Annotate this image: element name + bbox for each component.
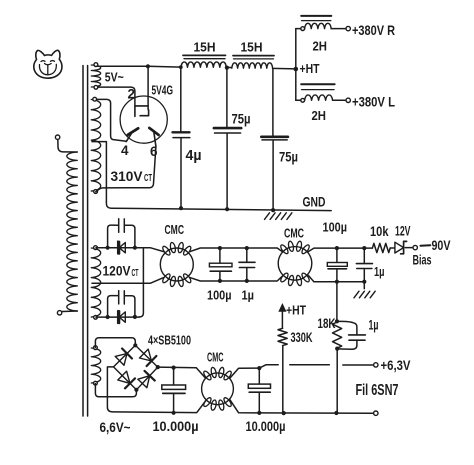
svg-text:2H: 2H	[312, 108, 327, 123]
svg-text:18K: 18K	[318, 316, 336, 331]
svg-text:6: 6	[150, 144, 158, 159]
svg-text:15H: 15H	[194, 41, 216, 55]
zener D7 12V	[395, 241, 407, 253]
svg-text:310V: 310V	[111, 168, 144, 184]
label 75µ #2	[279, 150, 298, 165]
node R2 rail	[334, 411, 338, 415]
svg-text:2H: 2H	[313, 39, 328, 54]
node C1 gnd	[179, 206, 183, 210]
tube filament	[135, 106, 149, 117]
svg-text:10k: 10k	[370, 224, 389, 239]
diode D3 bridge	[115, 349, 132, 366]
wire C6 to R2	[336, 282, 338, 322]
svg-text:+HT: +HT	[300, 61, 320, 76]
label 75µ #1	[232, 112, 251, 127]
wire 120V CT to CMC1	[92, 278, 164, 284]
wire bridge minus	[107, 367, 206, 413]
svg-text:10.000µ: 10.000µ	[246, 419, 286, 434]
svg-text:15H: 15H	[241, 41, 263, 55]
svg-text:CMC: CMC	[207, 351, 224, 365]
wire bias join vertical	[139, 248, 143, 317]
capacitor snubber top	[108, 219, 135, 248]
choke L1 core	[183, 55, 226, 58]
node C3 gnd	[271, 208, 275, 212]
label 5V~	[105, 70, 124, 85]
tube envelope 5V4G	[120, 96, 167, 143]
node C5 bottom	[245, 279, 249, 283]
label CMC #3	[207, 351, 224, 365]
node C10 top	[257, 366, 261, 370]
capacitor C9 10.000µ	[162, 368, 186, 413]
wire bias bottom rail A	[190, 276, 282, 281]
svg-text:Fil 6SN7: Fil 6SN7	[356, 382, 399, 399]
ground symbol bias	[354, 291, 375, 298]
terminal fil-	[374, 411, 378, 415]
capacitor C4 100µ	[209, 248, 232, 281]
svg-text:+380V L: +380V L	[352, 94, 395, 110]
label 5V4G	[152, 83, 174, 98]
diode D5 bridge	[118, 371, 135, 388]
node D2 right	[133, 315, 137, 319]
label Bias	[413, 253, 432, 268]
node C7 top	[362, 246, 366, 250]
terminal +380V L	[346, 98, 350, 102]
node C4 bottom	[218, 279, 222, 283]
wire zener to terminal	[405, 247, 412, 249]
node bridge bottom	[134, 388, 138, 392]
diode D4 bridge	[140, 349, 157, 366]
resistor R1 10k	[372, 243, 390, 252]
node C9 top	[172, 366, 176, 370]
label CMC #1	[165, 223, 185, 237]
label 310Vct	[111, 168, 153, 184]
wire bias bottom rail B	[308, 275, 364, 281]
wire 310V top to plate4	[97, 99, 127, 141]
svg-text:+HT: +HT	[286, 303, 306, 318]
capacitor C3 75µ	[261, 69, 288, 211]
node C4 top	[218, 246, 222, 250]
svg-text:12V: 12V	[395, 224, 411, 239]
diode D2 bias	[118, 311, 125, 323]
choke L3 2H core+coil	[296, 16, 346, 31]
node C5 top	[245, 246, 249, 250]
label 100µ #1	[207, 288, 232, 303]
resistor R2 18K	[333, 322, 342, 348]
wire 120V bottom wire	[96, 316, 139, 318]
node R2 top	[335, 319, 339, 323]
wire rail tube to choke1	[148, 65, 181, 68]
capacitor C7 1µ	[356, 248, 372, 282]
label 15H #2	[241, 41, 263, 55]
wire 120V top to CMC1	[96, 248, 164, 252]
wire center-tap to GND rail	[106, 142, 331, 211]
node C9 bottom	[172, 411, 176, 415]
node +HT	[294, 67, 299, 72]
label 12V	[395, 224, 411, 239]
capacitor C1 4µ	[173, 67, 190, 208]
wire 6.6V top to bridge	[95, 338, 135, 348]
choke L2 15H	[232, 63, 273, 68]
label +HT #2	[286, 303, 306, 318]
label +380V L	[352, 94, 395, 110]
terminal +380V R	[346, 26, 350, 30]
label 4xSB5100	[148, 333, 191, 348]
capacitor C8 1µ	[337, 321, 365, 349]
wire +HT vertical	[295, 29, 297, 101]
label GND	[303, 195, 326, 210]
winding 5V	[91, 63, 100, 90]
label 15H #1	[194, 41, 216, 55]
label CMC #2	[284, 227, 304, 241]
label 6,6V~	[100, 420, 131, 435]
choke CMC1 toroid	[160, 242, 193, 287]
node D2 left	[106, 315, 110, 319]
wire 5V bottom to pin2	[98, 87, 135, 105]
label 1µ #1	[242, 288, 255, 303]
tube plate pin4	[126, 128, 138, 141]
label +HT	[300, 61, 320, 76]
cat logo	[34, 50, 62, 78]
svg-text:4: 4	[121, 143, 129, 158]
node D1 left	[106, 246, 110, 250]
winding 310Vct	[91, 97, 100, 193]
diode D1 bias	[118, 241, 125, 253]
wire bias gnd drop	[363, 282, 365, 289]
label +6,3V	[381, 358, 411, 373]
svg-text:90V: 90V	[432, 237, 451, 253]
wire fil+ rail segment 3	[343, 364, 373, 366]
label pin 6	[150, 144, 158, 159]
svg-text:CMC: CMC	[284, 227, 304, 241]
svg-text:GND: GND	[303, 195, 326, 210]
node R2 bottom	[335, 347, 339, 351]
label 10k	[370, 224, 389, 239]
choke L2 core	[233, 56, 274, 59]
label 1µ #2	[374, 264, 385, 279]
node C1 top	[179, 65, 183, 69]
label 18K	[318, 316, 336, 331]
label 1µ #3	[369, 318, 379, 333]
label 10.000µ #2	[246, 419, 286, 434]
svg-text:CMC: CMC	[165, 223, 185, 237]
net +HT arrow	[279, 304, 286, 328]
label +380V R	[352, 22, 395, 38]
node C2 gnd	[225, 207, 229, 211]
label 4µ	[186, 148, 202, 164]
label 2H #2	[312, 108, 327, 123]
svg-text:CT: CT	[132, 268, 139, 279]
wire 310V bottom to plate6	[96, 146, 156, 191]
wire 5V top to B+ rail	[98, 65, 148, 67]
terminal -90V	[413, 245, 417, 249]
choke L1 15H	[181, 62, 226, 67]
node choke junction	[225, 66, 229, 70]
svg-text:+6,3V: +6,3V	[381, 358, 411, 373]
wire R1 to zener	[390, 247, 395, 249]
bridge wiring diamond	[114, 345, 158, 390]
wire heater drop	[147, 66, 149, 109]
svg-text:75µ: 75µ	[279, 150, 298, 165]
wire CMC3 to fil+ rail	[230, 368, 259, 378]
label 2H #1	[313, 39, 328, 54]
node C6 bottom	[335, 280, 339, 284]
svg-text:5V4G: 5V4G	[152, 83, 174, 98]
label 10.000µ #1	[153, 419, 199, 434]
wire R3 to fil rail	[282, 346, 284, 413]
node C7 bottom	[362, 280, 366, 284]
primary winding	[55, 135, 77, 315]
wire R2 to fil rail	[336, 349, 338, 413]
svg-text:4µ: 4µ	[186, 148, 202, 164]
choke CMC2 toroid	[278, 241, 312, 286]
choke L4 2H core+coil	[296, 84, 346, 102]
label 330K	[291, 330, 313, 345]
label 100µ #2	[323, 220, 348, 235]
capacitor C2 75µ	[214, 68, 241, 210]
wire bias top rail A	[190, 248, 282, 252]
node R3 rail	[282, 411, 286, 415]
svg-text:330K: 330K	[291, 330, 313, 345]
svg-text:Bias: Bias	[413, 253, 432, 268]
node C6 top	[335, 246, 339, 250]
terminal +6,3V	[374, 363, 378, 367]
svg-text:10.000µ: 10.000µ	[153, 419, 199, 434]
capacitor snubber bottom	[108, 291, 135, 317]
wire bridge plus	[158, 367, 206, 378]
node bridge top	[133, 343, 137, 347]
wire bias top rail B	[308, 248, 372, 252]
svg-text:100µ: 100µ	[207, 288, 232, 303]
wire choke2 to +HT	[273, 67, 296, 70]
label Fil 6SN7	[356, 382, 399, 399]
wire 310V center tap	[92, 141, 106, 143]
wire 6.6V bottom to bridge	[95, 384, 136, 397]
winding 6.6V	[91, 346, 100, 385]
wire fil+ rail segment 2	[290, 364, 330, 366]
tube plate pin6	[149, 128, 158, 146]
winding 120Vct	[91, 246, 100, 319]
svg-text:+380V R: +380V R	[352, 22, 395, 38]
resistor R3 330K	[278, 328, 287, 345]
node bridge right	[156, 365, 160, 369]
svg-text:CT: CT	[144, 173, 152, 184]
label -90V	[421, 237, 451, 253]
node heater-rail junction	[146, 64, 150, 68]
node D1 right	[133, 246, 137, 250]
wire between chokes	[226, 67, 232, 69]
wire fil- rail end	[259, 412, 373, 414]
node C10 bottom	[257, 411, 261, 415]
svg-text:1µ: 1µ	[369, 318, 379, 333]
diode D6 bridge	[138, 371, 155, 388]
svg-text:6,6V~: 6,6V~	[100, 420, 131, 435]
wire fil+ rail segment 1	[259, 365, 278, 368]
svg-text:100µ: 100µ	[323, 220, 348, 235]
capacitor C10 10.000µ	[248, 368, 270, 413]
svg-text:5V~: 5V~	[105, 70, 124, 85]
ground symbol GND	[265, 213, 292, 220]
label pin 2	[128, 87, 136, 102]
svg-text:1µ: 1µ	[374, 264, 385, 279]
choke CMC3 toroid	[202, 367, 234, 411]
label 120Vct	[103, 263, 139, 280]
svg-text:120V: 120V	[103, 263, 132, 279]
svg-text:75µ: 75µ	[232, 112, 251, 127]
svg-text:4×SB5100: 4×SB5100	[148, 333, 191, 348]
label pin 4	[121, 143, 129, 158]
svg-text:1µ: 1µ	[242, 288, 255, 303]
capacitor C5 1µ	[239, 248, 255, 281]
capacitor C6 100µ	[327, 248, 347, 282]
transformer core	[83, 66, 88, 417]
wire CMC3 to fil- rail	[230, 400, 259, 413]
